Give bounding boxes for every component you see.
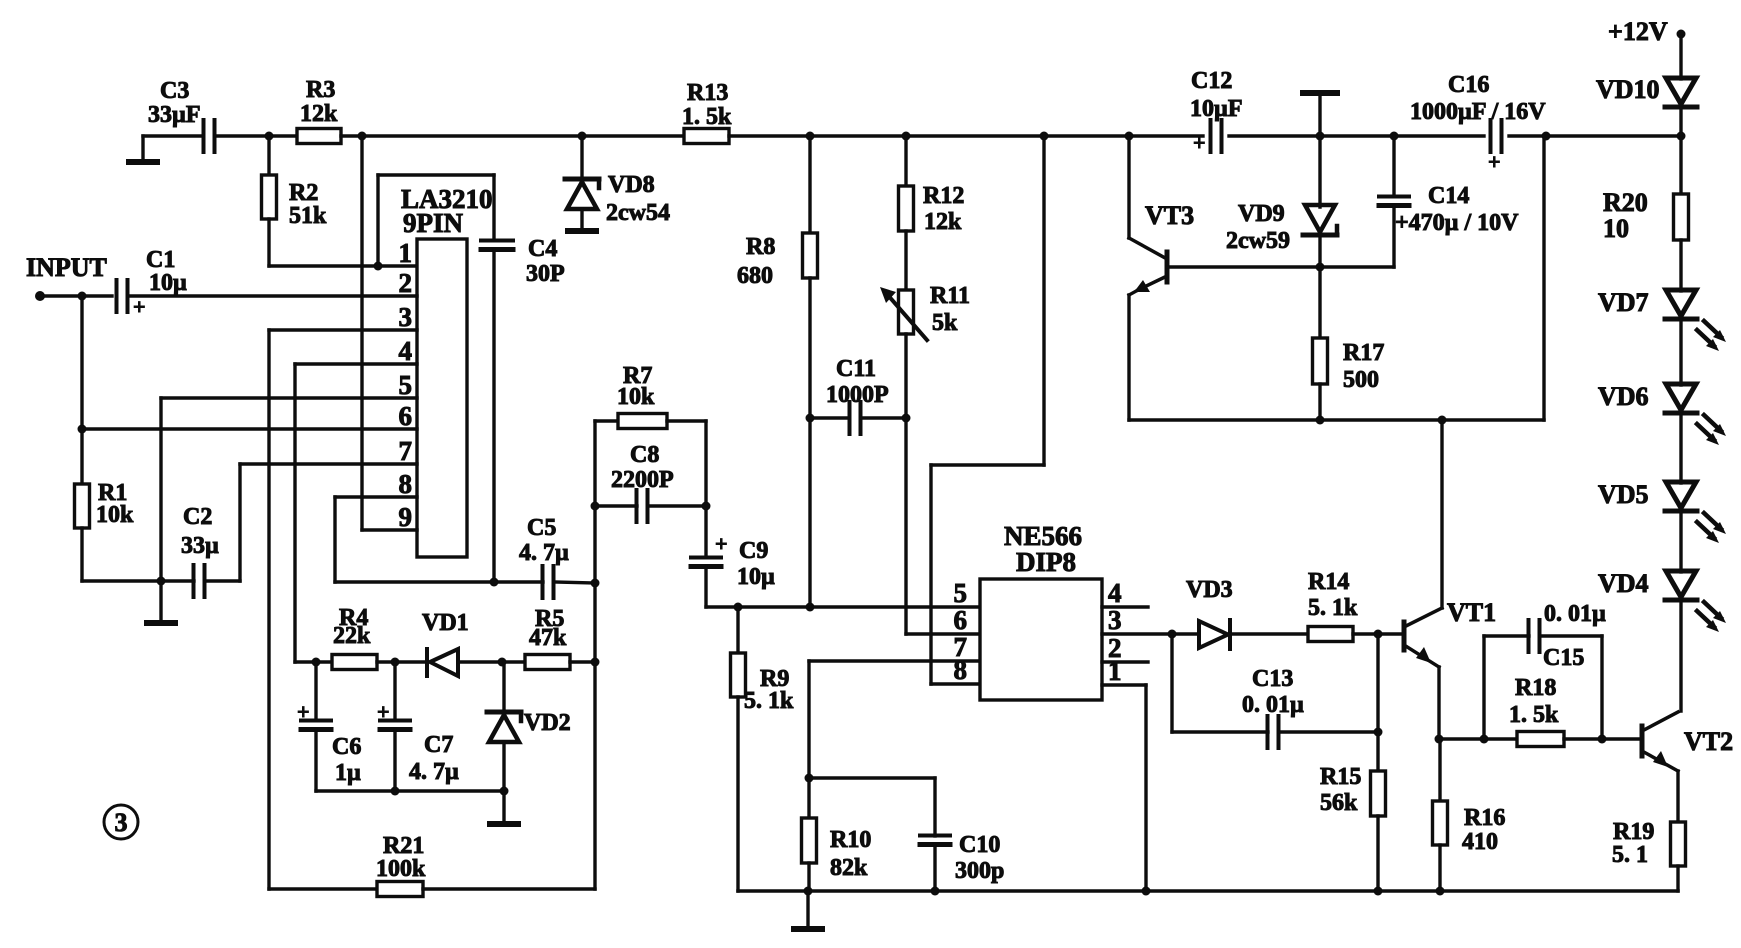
svg-text:100k: 100k bbox=[376, 856, 426, 882]
svg-text:51k: 51k bbox=[289, 203, 327, 229]
capacitor C3 bbox=[148, 78, 215, 152]
wire bbox=[215, 134, 297, 137]
diode VD10 bbox=[1596, 75, 1697, 107]
wire bbox=[341, 134, 684, 137]
node: C11/R11 bbox=[902, 414, 911, 423]
wire R17 bottom bbox=[1318, 384, 1321, 420]
wire NE566 pin8 bbox=[931, 682, 980, 685]
svg-text:C9: C9 bbox=[739, 538, 768, 564]
wire bbox=[729, 134, 1203, 137]
op-amp U1 LA3210 outer box bbox=[378, 175, 494, 266]
wire LA3210 pin5 bbox=[161, 396, 417, 399]
wire to C10 bbox=[933, 778, 936, 836]
wire C15 left leg bbox=[1482, 636, 1485, 739]
svg-text:+: + bbox=[1488, 149, 1501, 174]
svg-text:VD2: VD2 bbox=[524, 710, 571, 736]
wire NE566 pin2 stub bbox=[1102, 660, 1148, 663]
node: NE566 supply bbox=[1040, 132, 1049, 141]
wire rail to VT3 collector bbox=[1127, 136, 1130, 238]
wire NE566 pin3 bbox=[1102, 632, 1199, 635]
wire VD7 to VD6 bbox=[1679, 320, 1682, 385]
svg-text:22k: 22k bbox=[333, 623, 371, 649]
resistor R4 bbox=[332, 605, 377, 670]
svg-text:R20: R20 bbox=[1603, 188, 1648, 217]
svg-text:C7: C7 bbox=[424, 732, 453, 758]
node: C8 left bbox=[591, 502, 600, 511]
wire C4 to C5 row bbox=[492, 250, 495, 582]
op-amp U1 LA3210 body bbox=[417, 239, 467, 557]
wire C11 right bbox=[861, 416, 906, 419]
svg-text:VT3: VT3 bbox=[1145, 201, 1194, 230]
svg-text:3: 3 bbox=[399, 302, 413, 332]
wire VT1 emitter down bbox=[1437, 667, 1440, 739]
node: R15 ground bbox=[1374, 887, 1383, 896]
svg-text:9: 9 bbox=[399, 502, 413, 532]
resistor R7 bbox=[617, 363, 667, 429]
capacitor C12 bbox=[1190, 68, 1243, 155]
wire C5 to spine bbox=[554, 582, 595, 583]
wire VD2 bottom bbox=[502, 742, 505, 791]
wire VD8 to ground bbox=[580, 209, 583, 228]
capacitor C15 bbox=[1529, 601, 1607, 671]
svg-text:5k: 5k bbox=[932, 310, 958, 336]
wire to R10 bbox=[807, 778, 810, 818]
svg-text:R17: R17 bbox=[1343, 340, 1384, 366]
wire pin5 drop bbox=[159, 398, 162, 581]
resistor R2 bbox=[262, 175, 328, 229]
node: R17 bottom bbox=[1316, 416, 1325, 425]
svg-text:+470µ / 10V: +470µ / 10V bbox=[1395, 210, 1519, 236]
svg-text:9PIN: 9PIN bbox=[403, 208, 464, 238]
wire R1 to C2 bbox=[82, 579, 194, 582]
svg-text:47k: 47k bbox=[529, 625, 567, 651]
wire pin8 drop bbox=[333, 497, 336, 582]
LED VD4 bbox=[1598, 569, 1726, 632]
wire R12 to R11 bbox=[904, 231, 907, 290]
wire LA3210 pin7 bbox=[240, 462, 417, 465]
wire VD1 to R5 bbox=[458, 660, 525, 663]
wire C6 bottom bbox=[314, 730, 317, 791]
capacitor C1 bbox=[117, 247, 188, 319]
wire R11 down to pin6 bbox=[904, 334, 907, 634]
svg-text:10µF: 10µF bbox=[1190, 96, 1243, 122]
svg-text:0. 01µ: 0. 01µ bbox=[1242, 692, 1304, 718]
svg-text:+: + bbox=[297, 699, 310, 724]
wire to C11 bbox=[810, 416, 849, 419]
svg-text:C16: C16 bbox=[1448, 72, 1489, 98]
diode VD2 bbox=[487, 710, 571, 742]
node: VD2 tap bbox=[498, 658, 507, 667]
wire rail to pin8/9 bbox=[360, 136, 363, 497]
wire supply drop to pin8 bbox=[929, 465, 932, 684]
svg-text:7: 7 bbox=[399, 436, 413, 466]
svg-text:R10: R10 bbox=[830, 827, 871, 853]
wire R4 to VD1 bbox=[377, 660, 427, 663]
svg-text:+: + bbox=[133, 294, 146, 319]
wire R1 bottom bbox=[80, 528, 83, 581]
svg-text:C10: C10 bbox=[959, 832, 1000, 858]
wire LA3210 pin6 bbox=[82, 427, 417, 430]
wire VT1 collector up bbox=[1440, 420, 1443, 608]
wire C9 bottom bbox=[704, 567, 707, 607]
wire VD4 to VT2 collector bbox=[1679, 601, 1682, 711]
wire R15 to ground bus bbox=[1376, 816, 1379, 891]
svg-text:6: 6 bbox=[954, 605, 968, 635]
svg-text:VD10: VD10 bbox=[1596, 75, 1660, 104]
svg-text:C5: C5 bbox=[527, 515, 556, 541]
wire rail to R8 bbox=[808, 136, 811, 233]
svg-text:VD9: VD9 bbox=[1238, 201, 1285, 227]
wire NE566 pin4 stub bbox=[1102, 605, 1148, 608]
svg-text:R12: R12 bbox=[923, 183, 964, 209]
resistor R10 bbox=[802, 818, 872, 881]
wire NE566 pin5 row bbox=[706, 605, 980, 608]
node: VT1 collector bbox=[1438, 416, 1447, 425]
node: C4/C5 row bbox=[490, 578, 499, 587]
svg-text:R18: R18 bbox=[1515, 675, 1556, 701]
svg-text:R3: R3 bbox=[306, 77, 335, 103]
node: rail to LA3210 pin9 bbox=[358, 132, 367, 141]
wire pin1 to ground bus bbox=[1144, 685, 1147, 891]
svg-text:2cw59: 2cw59 bbox=[1226, 228, 1290, 254]
node: VT1 emitter/R16 bbox=[1435, 735, 1444, 744]
wire C13 right bbox=[1279, 730, 1378, 733]
wire supply horizontal bbox=[931, 463, 1044, 466]
node: pin3/C13 bbox=[1168, 630, 1177, 639]
wire LA3210 pin2 bbox=[128, 294, 417, 297]
wire VT1 emitter to R18 bbox=[1439, 737, 1517, 740]
wire to R17 bbox=[1318, 267, 1321, 338]
node: R14/R15 bbox=[1374, 630, 1383, 639]
capacitor C13 bbox=[1242, 666, 1304, 748]
svg-text:5. 1: 5. 1 bbox=[1612, 842, 1648, 868]
wire pin4 drop bbox=[293, 364, 296, 662]
svg-text:R8: R8 bbox=[746, 234, 775, 260]
ground bbox=[791, 891, 825, 932]
node: C14 bbox=[1390, 132, 1399, 141]
capacitor C9 bbox=[691, 531, 775, 590]
node: VD2/ground bbox=[500, 787, 509, 796]
svg-text:C11: C11 bbox=[836, 356, 876, 382]
power +12V bbox=[1608, 17, 1686, 46]
svg-text:R13: R13 bbox=[687, 80, 728, 106]
svg-text:4: 4 bbox=[399, 336, 413, 366]
svg-text:10µ: 10µ bbox=[737, 564, 775, 590]
wire to R9 bbox=[736, 607, 739, 653]
wire C15 right leg bbox=[1600, 636, 1603, 739]
wire C15 right bbox=[1540, 634, 1602, 637]
svg-text:56k: 56k bbox=[1320, 790, 1358, 816]
node: R9 top bbox=[734, 603, 743, 612]
figure label 3 bbox=[104, 805, 138, 839]
svg-text:1. 5k: 1. 5k bbox=[1509, 702, 1559, 728]
svg-text:2200P: 2200P bbox=[611, 467, 674, 493]
capacitor C5 bbox=[519, 515, 569, 598]
capacitor C16 bbox=[1410, 72, 1546, 174]
wire C2 right bbox=[205, 579, 240, 582]
wire VT3 emitter bus bbox=[1129, 418, 1544, 421]
wire to C15 bbox=[1484, 634, 1529, 637]
capacitor C10 bbox=[920, 832, 1004, 884]
wire R2 bottom bbox=[267, 219, 270, 266]
svg-text:VT2: VT2 bbox=[1684, 727, 1733, 756]
svg-text:2cw54: 2cw54 bbox=[606, 200, 670, 226]
wire C8 right leg bbox=[704, 421, 707, 556]
wire bbox=[1509, 134, 1681, 137]
wire VD6 to VD5 bbox=[1679, 414, 1682, 483]
wire C8 right bbox=[648, 504, 706, 507]
transistor VT3 bbox=[1129, 201, 1194, 292]
resistor R5 bbox=[525, 606, 570, 670]
wire to R7 bbox=[595, 419, 618, 422]
wire LA3210 pin9 bbox=[362, 528, 417, 531]
svg-text:C2: C2 bbox=[183, 504, 212, 530]
svg-text:12k: 12k bbox=[924, 209, 962, 235]
node: pin6 tap bbox=[78, 425, 87, 434]
wire pin3 drop to R21 bbox=[267, 330, 270, 889]
svg-text:82k: 82k bbox=[830, 855, 868, 881]
resistor R19 bbox=[1612, 819, 1686, 868]
diode VD9 bbox=[1226, 201, 1337, 254]
svg-text:VD3: VD3 bbox=[1186, 577, 1233, 603]
svg-text:C14: C14 bbox=[1428, 183, 1469, 209]
ground bbox=[126, 136, 160, 165]
node: LED column bbox=[1677, 132, 1686, 141]
node: R8 bbox=[806, 132, 815, 141]
resistor R20 bbox=[1603, 188, 1689, 243]
wire rail to VD8 bbox=[580, 136, 583, 178]
capacitor C14 bbox=[1379, 183, 1519, 236]
node: C8/C9 bbox=[702, 502, 711, 511]
svg-text:300p: 300p bbox=[955, 858, 1004, 884]
svg-text:1. 5k: 1. 5k bbox=[682, 104, 732, 130]
svg-text:DIP8: DIP8 bbox=[1016, 547, 1076, 577]
wire R5 to spine bbox=[570, 660, 595, 663]
wire R21 right bbox=[423, 887, 595, 890]
svg-text:VT1: VT1 bbox=[1447, 598, 1496, 627]
svg-text:VD1: VD1 bbox=[422, 610, 469, 636]
wire C10 bottom bbox=[933, 845, 936, 891]
node: VD9/R17 bbox=[1316, 263, 1325, 272]
wire bbox=[143, 134, 203, 137]
node: C7 tap bbox=[391, 658, 400, 667]
svg-text:8: 8 bbox=[954, 655, 968, 685]
svg-text:30P: 30P bbox=[526, 261, 565, 287]
LED VD7 bbox=[1598, 288, 1726, 351]
node: pin5/ground/C2 bbox=[157, 577, 166, 586]
capacitor C7 bbox=[377, 699, 459, 785]
resistor R9 bbox=[731, 653, 795, 714]
wire C13 left bbox=[1172, 730, 1268, 733]
diode VD3 bbox=[1186, 577, 1233, 649]
wire R19 bottom bbox=[1676, 866, 1679, 891]
wire VT2 emitter down bbox=[1676, 771, 1679, 822]
svg-text:C6: C6 bbox=[332, 734, 361, 760]
capacitor C8 bbox=[611, 442, 674, 522]
wire LA3210 pin3 bbox=[269, 328, 417, 331]
resistor R17 bbox=[1313, 338, 1385, 393]
resistor R15 bbox=[1320, 764, 1386, 816]
wire R7 right bbox=[667, 419, 706, 422]
resistor R8 bbox=[737, 233, 818, 289]
wire VD9 to base row bbox=[1318, 238, 1321, 267]
node: VD8 bbox=[578, 132, 587, 141]
svg-text:+: + bbox=[377, 699, 390, 724]
node: C5/spine bbox=[591, 579, 600, 588]
node: pin1/outer box bbox=[374, 262, 383, 271]
capacitor C4 bbox=[481, 236, 565, 287]
node: input/R1 bbox=[78, 292, 87, 301]
wire R14 to VT1 base bbox=[1353, 632, 1404, 635]
svg-text:3: 3 bbox=[1108, 605, 1122, 635]
node: drop to VT circuit bbox=[1542, 132, 1551, 141]
svg-text:10k: 10k bbox=[617, 384, 655, 410]
resistor R13 bbox=[682, 80, 732, 144]
wire to R4 bbox=[295, 660, 332, 663]
wire R20 to VD7 bbox=[1679, 240, 1682, 291]
svg-text:33µ: 33µ bbox=[181, 533, 219, 559]
node: R12 bbox=[902, 132, 911, 141]
node: R10/ground bbox=[804, 887, 813, 896]
wire C6/C7/VD2 bottom row bbox=[316, 789, 504, 792]
node: C6 tap bbox=[312, 658, 321, 667]
transistor VT1 bbox=[1404, 598, 1496, 667]
wire +12V to VD10 bbox=[1679, 36, 1682, 79]
wire to C8 bbox=[595, 504, 637, 507]
wire rail to VD9 bbox=[1318, 136, 1321, 207]
svg-text:6: 6 bbox=[399, 401, 413, 431]
svg-text:8: 8 bbox=[399, 469, 413, 499]
svg-text:33µF: 33µF bbox=[148, 102, 201, 128]
wire R21 left bbox=[269, 887, 377, 890]
svg-text:+12V: +12V bbox=[1608, 17, 1668, 46]
wire ground bus bbox=[738, 889, 1678, 893]
wire R10 bottom bbox=[807, 863, 810, 891]
wire to C7 bbox=[393, 662, 396, 719]
svg-text:3: 3 bbox=[115, 808, 128, 837]
svg-text:4. 7µ: 4. 7µ bbox=[409, 759, 459, 785]
wire LA3210 pin1 bbox=[269, 264, 417, 267]
resistor R16 bbox=[1433, 801, 1506, 855]
wire R16 bottom bbox=[1438, 845, 1441, 891]
wire R8 down bbox=[808, 278, 811, 607]
wire C7 bottom bbox=[393, 730, 396, 791]
wire pin3 drop to C13 bbox=[1170, 634, 1173, 732]
node: R10 top bbox=[805, 774, 814, 783]
wire LA3210 pin8 bbox=[335, 495, 417, 498]
wire VD5 to VD4 bbox=[1679, 512, 1682, 572]
wire VT3 emitter bbox=[1129, 290, 1138, 295]
node: C10 bottom bbox=[931, 887, 940, 896]
svg-text:VD6: VD6 bbox=[1598, 382, 1649, 411]
wire rail drop for NE566 bbox=[1042, 136, 1045, 465]
svg-text:1µ: 1µ bbox=[335, 760, 361, 786]
svg-text:VD5: VD5 bbox=[1598, 480, 1649, 509]
node: R16 ground bbox=[1436, 887, 1445, 896]
wire VT3 emitter down bbox=[1127, 295, 1130, 420]
svg-text:0. 01µ: 0. 01µ bbox=[1544, 601, 1606, 627]
svg-text:R11: R11 bbox=[930, 283, 970, 309]
svg-text:4. 7µ: 4. 7µ bbox=[519, 540, 569, 566]
wire down to R15 bbox=[1376, 634, 1379, 771]
svg-text:10µ: 10µ bbox=[149, 270, 187, 296]
wire bbox=[1229, 134, 1484, 137]
svg-text:5: 5 bbox=[399, 370, 413, 400]
wire NE566 pin6 bbox=[906, 632, 980, 635]
svg-text:VD8: VD8 bbox=[608, 172, 655, 198]
wire pin8-pin9 bridge bbox=[360, 497, 363, 530]
wire C14 down bbox=[1392, 206, 1395, 267]
wire NE566 pin1 bbox=[1102, 683, 1146, 686]
svg-text:1: 1 bbox=[399, 238, 413, 268]
ground bbox=[487, 791, 521, 827]
node: C11 left bbox=[806, 414, 815, 423]
svg-text:410: 410 bbox=[1462, 829, 1498, 855]
ground bbox=[1300, 90, 1340, 136]
node: C15 left bbox=[1480, 735, 1489, 744]
wire VD3 to R14 bbox=[1230, 632, 1308, 635]
diode VD1 bbox=[422, 610, 469, 676]
svg-text:C4: C4 bbox=[528, 236, 557, 262]
node: C7 bottom bbox=[391, 787, 400, 796]
wire input down to R1 bbox=[80, 296, 83, 484]
wire R18 to VT2 base bbox=[1564, 737, 1640, 740]
node: R5/spine bbox=[591, 658, 600, 667]
resistor R12 bbox=[899, 183, 965, 235]
wire pin7 drop bbox=[807, 661, 810, 778]
LED VD5 bbox=[1598, 480, 1726, 543]
capacitor C2 bbox=[181, 504, 219, 597]
wire bbox=[40, 294, 112, 297]
node: R8 bottom bbox=[806, 603, 815, 612]
node: pin1 ground bbox=[1142, 887, 1151, 896]
svg-text:+: + bbox=[1193, 130, 1206, 155]
resistor R14 bbox=[1308, 569, 1358, 642]
node: C15 right bbox=[1598, 735, 1607, 744]
LED VD6 bbox=[1598, 382, 1726, 445]
wire rail to R12 bbox=[904, 136, 907, 186]
svg-text:10: 10 bbox=[1603, 214, 1629, 243]
svg-text:500: 500 bbox=[1343, 367, 1379, 393]
svg-text:VD7: VD7 bbox=[1598, 288, 1649, 317]
svg-text:+: + bbox=[715, 531, 728, 556]
wire up to pin7 bbox=[238, 464, 241, 581]
svg-text:R15: R15 bbox=[1320, 764, 1361, 790]
wire R2 top bbox=[267, 136, 270, 175]
variable resistor R11 bbox=[880, 283, 970, 340]
capacitor C11 bbox=[826, 356, 889, 434]
svg-text:C8: C8 bbox=[630, 442, 659, 468]
ground bbox=[565, 228, 599, 234]
wire R9 to ground bus bbox=[736, 697, 739, 891]
capacitor C6 bbox=[297, 699, 361, 786]
resistor R21 bbox=[376, 833, 426, 897]
wire to C6 bbox=[314, 662, 317, 719]
diode VD8 bbox=[565, 172, 670, 226]
wire to VD2 bbox=[502, 662, 505, 712]
svg-text:4: 4 bbox=[1108, 578, 1122, 608]
resistor R3 bbox=[297, 77, 341, 144]
svg-text:VD4: VD4 bbox=[1598, 569, 1649, 598]
svg-text:680: 680 bbox=[737, 263, 773, 289]
timer U2 NE566 bbox=[980, 521, 1102, 700]
svg-text:C12: C12 bbox=[1191, 68, 1232, 94]
node: VD9/ground bbox=[1316, 132, 1325, 141]
svg-text:2: 2 bbox=[399, 268, 413, 298]
svg-text:1000P: 1000P bbox=[826, 382, 889, 408]
wire up to rail bbox=[1542, 136, 1545, 420]
svg-text:12k: 12k bbox=[300, 101, 338, 127]
